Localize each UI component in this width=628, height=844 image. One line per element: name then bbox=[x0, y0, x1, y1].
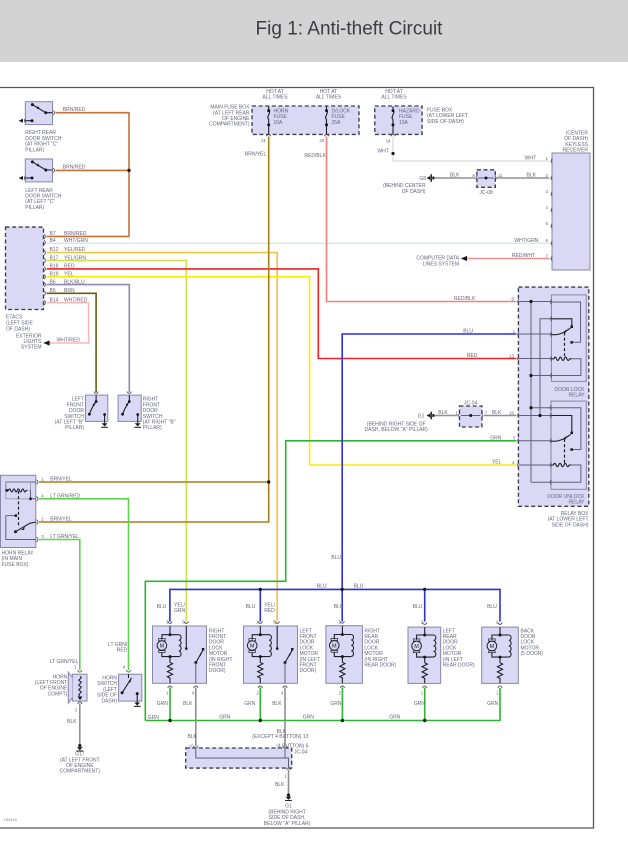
relay K2 NO contact path bbox=[551, 408, 581, 450]
pins motor bottoms bbox=[166, 690, 499, 695]
svg-text:10A: 10A bbox=[399, 120, 409, 126]
svg-text:BLK: BLK bbox=[275, 782, 285, 788]
svg-text:B6: B6 bbox=[50, 279, 56, 285]
svg-text:25A: 25A bbox=[332, 120, 342, 126]
svg-text:COMPT): COMPT) bbox=[48, 691, 68, 697]
resistor R2 in motor M2 bbox=[258, 663, 263, 684]
svg-text:RED/BLK: RED/BLK bbox=[304, 153, 326, 159]
wire gray RED entry to lock relay coil bbox=[518, 358, 551, 360]
label motor M5 name bbox=[521, 628, 544, 657]
svg-text:RED: RED bbox=[264, 608, 275, 614]
relay K2 NO contact square bbox=[570, 448, 573, 451]
wire BLK horn pin 2 to ground G17 bbox=[79, 704, 81, 745]
label S3 name bbox=[55, 397, 85, 432]
ground G8 (behind center of dash) bbox=[427, 174, 435, 182]
svg-text:BRN/YEL: BRN/YEL bbox=[50, 476, 72, 482]
wire gray BLK entry to unlock relay bbox=[518, 415, 551, 417]
svg-text:JC-04: JC-04 bbox=[294, 750, 308, 756]
relay K3 coil feed from pin 1 bbox=[6, 482, 36, 490]
labels motor bottom wires bbox=[157, 701, 499, 707]
svg-text:10: 10 bbox=[189, 744, 194, 749]
switch S1 right rear door switch box bbox=[25, 102, 52, 125]
label horn name bbox=[35, 674, 68, 697]
relay K2 actuator dashed link bbox=[564, 439, 566, 465]
svg-text:GRN: GRN bbox=[389, 715, 401, 721]
svg-text:BLK/BLU: BLK/BLU bbox=[64, 279, 85, 285]
motor M2 parallel branch bbox=[252, 626, 269, 663]
arrow to computer data lines system bbox=[461, 256, 467, 261]
motor M1 coil branch bbox=[179, 635, 181, 657]
switch S5 arm bbox=[122, 674, 132, 693]
wire GRN door unlock relay pin 3 feed bbox=[145, 441, 516, 721]
switch S2 aux stub bbox=[25, 177, 32, 179]
wire BLK motor M1 pin 4 to JC-04 pin 10 bbox=[195, 688, 197, 747]
junction GRN bus at motor M4 riser bbox=[423, 719, 426, 722]
connectors at JC-04 lower pins 10,13/6,1 bbox=[194, 746, 291, 770]
motor M2 coil branch bbox=[269, 635, 271, 657]
svg-text:BLU: BLU bbox=[157, 604, 167, 610]
switch S5 fixed contact bbox=[136, 694, 138, 703]
svg-text:WHT/RED: WHT/RED bbox=[64, 297, 88, 303]
svg-text:BRN: BRN bbox=[64, 288, 75, 294]
svg-text:RED/WHT: RED/WHT bbox=[512, 253, 535, 259]
svg-text:BLU: BLU bbox=[317, 584, 327, 590]
fuse F3 HAZARD FUSE 10A element bbox=[392, 107, 394, 135]
svg-text:G8: G8 bbox=[419, 176, 426, 182]
relay K1 NC contact path bbox=[551, 319, 571, 326]
switch S3 arm arrowhead bbox=[93, 403, 96, 407]
wire BRN/RED left rear door switch branch bbox=[56, 169, 130, 171]
svg-text:SIDE OF DASH): SIDE OF DASH) bbox=[552, 522, 589, 528]
junction GRN bus at motor M2 riser bbox=[259, 719, 262, 722]
svg-text:BLU: BLU bbox=[463, 329, 473, 335]
svg-text:BRN/RED: BRN/RED bbox=[63, 165, 86, 171]
connectors at relay box edge pins 5,1,13,16,3,2 bbox=[518, 299, 519, 467]
svg-text:GRN: GRN bbox=[244, 701, 256, 707]
svg-text:BLU: BLU bbox=[354, 584, 364, 590]
svg-text:BLU: BLU bbox=[487, 604, 497, 610]
svg-text:BRN/YEL: BRN/YEL bbox=[50, 516, 72, 522]
relay K1 arm arrowhead bbox=[563, 329, 566, 333]
wire YEL ETACS B19 to door unlock relay pin 2 bbox=[47, 277, 517, 465]
svg-text:B18: B18 bbox=[50, 264, 59, 270]
wire YEL/RED ETACS B12 to motor M2 pin 5 bbox=[47, 253, 278, 622]
label horn switch name bbox=[97, 676, 117, 705]
relay K1 coil return path bbox=[551, 359, 581, 376]
svg-text:PILLAR): PILLAR) bbox=[143, 425, 162, 431]
wire BLK/BLU ETACS B6 to right front door switch bbox=[47, 285, 130, 392]
wire BLU motor M4 riser bbox=[424, 589, 426, 621]
relay K3 common rail to pin 3 bbox=[6, 516, 36, 540]
svg-text:WHT: WHT bbox=[525, 156, 536, 162]
wire gray rail to unlock relay top pin bbox=[531, 407, 551, 409]
relay K1 NO contact path bbox=[551, 302, 580, 342]
relay K2 NC contact square bbox=[571, 432, 574, 435]
svg-text:20: 20 bbox=[319, 138, 324, 143]
connectors at lock relay inner pins bbox=[551, 300, 552, 378]
switch S2 arm arrowhead bbox=[37, 163, 40, 166]
ground G1 (behind right side of dash, below A pillar) upper bbox=[427, 412, 435, 420]
svg-text:BLK: BLK bbox=[438, 410, 448, 416]
svg-text:RELAY: RELAY bbox=[568, 500, 585, 506]
wire BLK JC-04 pin 7 to relay box pin 16 bbox=[484, 415, 517, 417]
svg-text:BLU: BLU bbox=[334, 604, 344, 610]
wire GRN motor M3 riser bbox=[341, 688, 343, 721]
connectors at fuse box exits 21,20,14 bbox=[266, 135, 395, 137]
relay box (at lower left side of dash) bbox=[518, 287, 588, 506]
connector JC-04 upper box bbox=[460, 406, 482, 427]
arrow to exterior lights system bbox=[43, 340, 49, 345]
svg-text:RECEIVER: RECEIVER bbox=[562, 148, 588, 154]
svg-text:16: 16 bbox=[509, 410, 514, 415]
svg-text:B4: B4 bbox=[50, 238, 56, 244]
junction dot ground rail at BLK wire bbox=[538, 414, 541, 417]
switch S3 left front door switch box bbox=[86, 395, 108, 421]
svg-text:B5: B5 bbox=[50, 288, 56, 294]
junction dot power rail at lock coil bbox=[529, 374, 532, 377]
connectors at rear door switch outputs bbox=[53, 110, 54, 172]
svg-text:FUSE BOX): FUSE BOX) bbox=[2, 562, 29, 568]
svg-text:YEL/GRN: YEL/GRN bbox=[64, 255, 86, 261]
svg-text:BLK: BLK bbox=[183, 701, 193, 707]
motor M5 back door lock motor box bbox=[482, 627, 519, 683]
svg-text:(4 BUTTON) 6: (4 BUTTON) 6 bbox=[276, 744, 308, 750]
svg-text:WHT/RED: WHT/RED bbox=[57, 338, 81, 344]
relay K1 coil bbox=[551, 357, 571, 360]
wire GRN motor M1 riser bbox=[169, 688, 171, 721]
svg-text:OF DASH): OF DASH) bbox=[6, 327, 30, 333]
connector JC-04 lower box bbox=[186, 748, 292, 768]
switch S2 left rear door switch box bbox=[25, 159, 52, 182]
connectors at horn pins 1,2 and horn switch pin 4 bbox=[78, 670, 131, 704]
keyless pin numbers 1-7 bbox=[546, 156, 549, 258]
svg-text:BLK: BLK bbox=[67, 719, 77, 725]
motor M2 ajar sense line bbox=[276, 626, 278, 649]
label motor M4 name bbox=[443, 628, 475, 668]
svg-text:GRN: GRN bbox=[330, 701, 342, 707]
horn H1 coil element bbox=[79, 677, 81, 696]
wire gray rail to lock relay pin 5 bbox=[531, 375, 551, 377]
horn H1 flare bbox=[68, 672, 72, 703]
svg-text:10A: 10A bbox=[274, 120, 284, 126]
label motor M2 name bbox=[300, 628, 320, 674]
relay K3 coil element bbox=[7, 489, 28, 492]
svg-text:(EXCEPT 4 BUTTON) 13: (EXCEPT 4 BUTTON) 13 bbox=[252, 734, 308, 740]
svg-text:BLU: BLU bbox=[246, 604, 256, 610]
switch S5 horn switch box bbox=[119, 674, 142, 701]
connectors at motor bottom pins bbox=[168, 686, 503, 688]
svg-text:LINES SYSTEM: LINES SYSTEM bbox=[423, 261, 459, 267]
wire BRN/YEL horn relay pin 1 branch bbox=[39, 481, 269, 483]
motor M1 right front door lock motor box bbox=[153, 626, 207, 683]
switch S1 arm bbox=[32, 105, 52, 113]
wire WHT hazard fuse to keyless receiver pin 1 bbox=[393, 137, 550, 162]
junction GRN bus at motor M1 riser bbox=[168, 719, 171, 722]
svg-text:M: M bbox=[332, 644, 337, 650]
relay K3 actuator dashed link bbox=[18, 491, 20, 528]
svg-text:BLK: BLK bbox=[492, 410, 502, 416]
svg-text:DASH): DASH) bbox=[101, 698, 117, 704]
svg-text:PILLAR): PILLAR) bbox=[65, 425, 84, 431]
labels GRN bus bbox=[148, 715, 401, 721]
svg-text:14: 14 bbox=[386, 138, 391, 143]
motor M2 left front door lock motor box bbox=[244, 626, 298, 683]
wire BRN ETACS B5 to left front door switch bbox=[47, 293, 97, 392]
svg-text:COMPARTMENT): COMPARTMENT) bbox=[209, 122, 250, 128]
relay K3 arm arrowhead bbox=[21, 527, 25, 531]
svg-text:B14: B14 bbox=[50, 297, 59, 303]
svg-text:13: 13 bbox=[509, 353, 514, 358]
connectors at JC-04 upper pins 1,7 bbox=[459, 413, 483, 418]
wire gray GRN entry to unlock relay common bbox=[518, 440, 551, 442]
wire BLU motor M2 riser bbox=[259, 589, 261, 621]
motor M1 armature circle bbox=[157, 641, 167, 651]
resistor R3 in motor M3 bbox=[340, 662, 345, 683]
wire gray RED/BLK entry to lock relay pin 1 bbox=[518, 301, 551, 303]
svg-text:DOOR): DOOR) bbox=[300, 668, 317, 674]
main fuse box bbox=[252, 106, 359, 134]
junction BLU bus at relay riser bbox=[341, 588, 344, 591]
svg-text:BLU: BLU bbox=[331, 555, 341, 561]
svg-text:BRN/RED: BRN/RED bbox=[63, 107, 86, 113]
labels relay box pins bbox=[509, 296, 516, 465]
svg-text:LT GRN/RED: LT GRN/RED bbox=[50, 493, 80, 499]
svg-text:ALL TIMES: ALL TIMES bbox=[316, 95, 342, 101]
svg-text:BLK: BLK bbox=[450, 173, 460, 179]
switch S1 aux stub bbox=[25, 120, 32, 122]
wire BLK JC-08 pin 11 to keyless receiver pin 2 bbox=[497, 177, 550, 179]
svg-text:M: M bbox=[250, 644, 255, 650]
junction dot power rail top bbox=[529, 300, 532, 303]
svg-text:G1: G1 bbox=[418, 413, 425, 419]
svg-text:PILLAR): PILLAR) bbox=[25, 205, 44, 211]
wire BLK JC-04 pin 1 to ground G1 bbox=[288, 770, 290, 795]
svg-text:REAR DOOR): REAR DOOR) bbox=[364, 663, 396, 669]
wire WHT/RED ETACS B14 to exterior lights system bbox=[47, 303, 89, 343]
labels ETACS pins bbox=[50, 231, 89, 303]
junction rear switch wires bbox=[127, 169, 130, 172]
svg-text:BRN/RED: BRN/RED bbox=[64, 231, 87, 237]
motor M3 right rear door lock motor box bbox=[326, 626, 363, 684]
resistor R4 in motor M4 bbox=[422, 663, 427, 684]
svg-text:GRN: GRN bbox=[219, 715, 231, 721]
switch S4 fixed contact bbox=[137, 415, 139, 422]
wire GRN motor M2 riser bbox=[259, 688, 261, 721]
label motor M3 name bbox=[364, 628, 396, 668]
junction BLU bus at motor M4 riser bbox=[423, 588, 426, 591]
wire BRN/YEL horn fuse 21 to horn relay pins 1 and 2 bbox=[39, 137, 269, 523]
connectors at keyless receiver pins 1-7 bbox=[551, 159, 552, 261]
relay K2 NC contact path bbox=[551, 416, 572, 433]
switch S4 right front door switch box bbox=[118, 395, 141, 421]
junction BLU bus at motor M2 riser bbox=[259, 588, 262, 591]
switch S4 arm arrowhead bbox=[126, 403, 129, 407]
svg-text:GRN: GRN bbox=[490, 436, 502, 442]
connectors at front door switch tops bbox=[94, 392, 132, 394]
svg-text:WHT/GRN: WHT/GRN bbox=[64, 238, 88, 244]
motor M2 key switch arm bbox=[285, 650, 292, 662]
svg-text:DOOR): DOOR) bbox=[209, 668, 226, 674]
svg-text:B7: B7 bbox=[50, 231, 56, 237]
labels main fuse box bbox=[209, 105, 250, 128]
connectors at unlock relay inner pins bbox=[550, 405, 551, 484]
relay K2 arm arrowhead bbox=[563, 436, 566, 440]
wire BRN/RED from rear door switches to ETACS B7 bbox=[47, 113, 130, 237]
svg-text:REAR DOOR): REAR DOOR) bbox=[443, 663, 475, 669]
ground below S3 bbox=[104, 421, 106, 423]
resistor R5 in motor M5 bbox=[497, 663, 502, 684]
wire LT GRN/YEL horn relay pin 3 to horn bbox=[39, 540, 80, 671]
svg-text:LT GRN/YEL: LT GRN/YEL bbox=[50, 534, 79, 540]
horn H1 box bbox=[72, 674, 87, 701]
svg-text:B12: B12 bbox=[50, 247, 59, 253]
wire RED ETACS B18 to door lock relay pin 13 bbox=[47, 269, 517, 359]
svg-text:GRN: GRN bbox=[303, 715, 315, 721]
svg-text:11: 11 bbox=[498, 173, 503, 178]
relay K1 NO contact square bbox=[570, 341, 573, 344]
svg-text:RED: RED bbox=[467, 353, 478, 359]
svg-text:GRN: GRN bbox=[487, 701, 499, 707]
keyless receiver U1 box bbox=[552, 153, 590, 270]
svg-text:BRN/YEL: BRN/YEL bbox=[245, 152, 267, 158]
svg-text:(5 DOOR): (5 DOOR) bbox=[521, 651, 544, 657]
svg-text:Fig 1: Anti-theft Circuit: Fig 1: Anti-theft Circuit bbox=[256, 19, 444, 40]
motor M2 armature circle bbox=[247, 641, 257, 651]
svg-text:BELOW "A" PILLAR): BELOW "A" PILLAR) bbox=[264, 821, 311, 827]
svg-text:BLK: BLK bbox=[272, 701, 282, 707]
svg-text:RED: RED bbox=[117, 648, 128, 654]
svg-text:M: M bbox=[490, 644, 495, 650]
relay K3 coil to pin 4 bbox=[30, 490, 37, 498]
fuse F1 HORN FUSE 10A element bbox=[268, 107, 270, 135]
switch S2 arm bbox=[32, 162, 52, 170]
junction dot power rail at unlock contact bbox=[529, 406, 532, 409]
motor M1 parallel branch bbox=[162, 626, 179, 663]
horn H1 arrowhead bbox=[78, 696, 83, 700]
switch S1 aux arrow out bbox=[19, 119, 23, 123]
svg-text:SYSTEM: SYSTEM bbox=[21, 345, 42, 351]
svg-text:WHT: WHT bbox=[377, 149, 388, 155]
svg-text:M: M bbox=[414, 644, 419, 650]
wire RED/BLK d/lock fuse 20 to relay box pin 5 bbox=[327, 137, 517, 302]
connector JC-08 box bbox=[477, 170, 495, 188]
svg-text:GRN: GRN bbox=[174, 608, 186, 614]
wire RED/WHT keyless receiver pin 7 to computer data lines system bbox=[468, 258, 550, 260]
relay K3 coil housing bbox=[6, 482, 31, 499]
wire LT GRN/RED horn relay pin 4 to horn switch bbox=[39, 499, 129, 670]
svg-text:RELAY: RELAY bbox=[568, 393, 585, 399]
switch S2 aux arrow out bbox=[19, 176, 23, 180]
svg-text:SIDE OF DASH): SIDE OF DASH) bbox=[427, 119, 464, 125]
motor M1 ajar sense line bbox=[185, 626, 187, 649]
junction GRN bus at motor M3 riser bbox=[341, 719, 344, 722]
svg-text:YEL: YEL bbox=[492, 460, 502, 466]
svg-text:WHT/GRN: WHT/GRN bbox=[514, 238, 538, 244]
svg-text:ALL TIMES: ALL TIMES bbox=[381, 95, 407, 101]
svg-text:JC-04: JC-04 bbox=[464, 401, 478, 407]
wire gray power rail inside relay box bbox=[530, 302, 532, 483]
svg-text:ETACS: ETACS bbox=[6, 315, 23, 321]
header bar bbox=[0, 0, 628, 62]
svg-text:YEL: YEL bbox=[64, 272, 74, 278]
wire BLU bus along motor tops bbox=[170, 589, 500, 621]
wire GRN motor M4 riser bbox=[424, 688, 426, 721]
wire WHT/GRN ETACS B4 to keyless receiver pin 6 bbox=[47, 242, 550, 244]
relay K2 door unlock relay inner box bbox=[551, 401, 586, 489]
connectors at ETACS pins B7,B4,B12,B17,B18,B19,B6,B5,B14 bbox=[44, 234, 45, 305]
wire BLK ground G8 to JC-08 pin 8 bbox=[434, 177, 475, 179]
wire YEL/GRN ETACS B17 to motor M1 pin 6 bbox=[47, 261, 187, 622]
relay K1 actuator dashed link bbox=[564, 333, 566, 359]
relay K3 fixed contact stub bbox=[6, 515, 16, 517]
wire gray rail to unlock relay coil end bbox=[531, 481, 551, 483]
ground G17 (at left front of engine compartment) bbox=[77, 744, 84, 751]
svg-text:M: M bbox=[160, 644, 165, 650]
relay K3 switch arm bbox=[16, 522, 37, 532]
fuse box (at lower left side of dash) bbox=[375, 106, 422, 134]
svg-text:RED/BLK: RED/BLK bbox=[454, 296, 476, 302]
connectors at JC-08 pins 8,11 bbox=[476, 176, 496, 181]
svg-text:B19: B19 bbox=[50, 272, 59, 278]
relay K1 door lock relay inner box bbox=[551, 295, 586, 382]
wire gray BLU entry to lock relay common bbox=[518, 333, 551, 335]
ground G1 lower (behind right side of dash, below A pillar) bbox=[285, 794, 292, 801]
svg-text:ALL TIMES: ALL TIMES bbox=[262, 95, 288, 101]
resistor R1 in motor M1 bbox=[167, 663, 172, 684]
wire BLK motor M2 pin 4 to JC-04 pin 13/6 bbox=[284, 688, 286, 747]
svg-text:COMPARTMENT): COMPARTMENT) bbox=[60, 769, 101, 775]
ground below horn switch bbox=[134, 703, 140, 706]
relay K1 switch arm bbox=[551, 328, 570, 335]
label motor M1 name bbox=[209, 628, 233, 674]
label keyless receiver name bbox=[562, 130, 588, 153]
svg-text:BLU: BLU bbox=[413, 604, 423, 610]
labels hot at all times bbox=[262, 89, 407, 101]
wire gray YEL entry to unlock relay coil bbox=[518, 464, 551, 466]
svg-text:JC-08: JC-08 bbox=[479, 190, 493, 196]
svg-text:RED: RED bbox=[64, 264, 75, 270]
switch S3 entry stub and arm bbox=[89, 395, 96, 414]
svg-text:YEL/RED: YEL/RED bbox=[64, 247, 86, 253]
svg-text:GRN: GRN bbox=[414, 701, 426, 707]
label S4 name bbox=[143, 397, 176, 432]
junction BRN/YEL at horn relay pin 1 bbox=[267, 480, 270, 483]
svg-text:GRN: GRN bbox=[148, 715, 160, 721]
fuse F2 D/LOCK FUSE 25A element bbox=[326, 107, 328, 135]
wire gray ground rail from lock relay pin 2 bbox=[540, 319, 551, 416]
svg-text:(LEFT SIDE: (LEFT SIDE bbox=[6, 321, 34, 327]
connectors at horn relay pins 1,4,2,3 bbox=[37, 480, 38, 542]
relay K2 coil return path bbox=[551, 465, 581, 482]
ETACS control unit box bbox=[6, 227, 44, 309]
svg-text:OF DASH): OF DASH) bbox=[402, 189, 426, 195]
svg-text:PILLAR): PILLAR) bbox=[25, 147, 44, 153]
relay K2 switch arm bbox=[551, 434, 571, 441]
svg-text:B17: B17 bbox=[50, 255, 59, 261]
wire GRN bus along motor bottoms bbox=[145, 688, 500, 721]
svg-text:GRN: GRN bbox=[157, 701, 169, 707]
svg-text:DASH, BELOW "A" PILLAR): DASH, BELOW "A" PILLAR) bbox=[365, 427, 429, 433]
switch S5 arm arrowhead bbox=[129, 679, 131, 683]
wire BLU door lock relay pin 1 to motor M3 bbox=[342, 334, 516, 622]
labels horn relay pins bbox=[41, 476, 44, 539]
motor M1 key switch arm bbox=[196, 650, 203, 662]
relay K2 coil bbox=[551, 463, 572, 466]
motor M4 left rear door lock motor box bbox=[408, 627, 441, 683]
ground below S4 bbox=[137, 421, 139, 423]
switch S4 entry stub and arm bbox=[123, 395, 130, 414]
switch S1 arm arrowhead bbox=[37, 106, 40, 109]
